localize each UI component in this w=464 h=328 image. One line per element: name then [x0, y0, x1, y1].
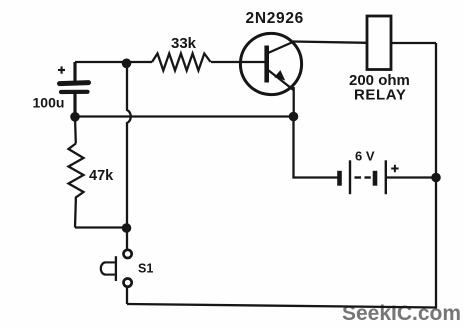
wire: 47k bottom to S1 junction — [75, 226, 127, 228]
battery BT1 6V — [340, 160, 399, 194]
capacitor C1 100u — [58, 62, 89, 117]
switch S1 pushbutton — [101, 250, 132, 287]
node: junction dot emitter / mid wire — [289, 112, 299, 122]
node: junction dot cap bottom / 47k top — [70, 112, 80, 122]
wire: junction B to 33k left lead — [127, 61, 152, 63]
wire: switch bottom contact down — [126, 288, 128, 304]
svg-text:47k: 47k — [89, 168, 114, 184]
svg-text:RELAY: RELAY — [354, 87, 406, 104]
wire: emitter junction down and right to battery minus — [294, 117, 338, 178]
wire: collector to relay — [293, 42, 367, 43]
resistor R1 33k zigzag — [152, 54, 211, 71]
wire: emitter down to junction — [293, 87, 295, 117]
svg-text:100u: 100u — [33, 95, 65, 111]
svg-text:SeekIC.com: SeekIC.com — [342, 302, 461, 325]
wire: junction to switch top contact — [126, 228, 128, 250]
svg-text:S1: S1 — [138, 262, 153, 276]
wire: battery plus to right rail — [387, 176, 436, 178]
node: junction dot B (top) — [122, 59, 132, 69]
wire: relay right to rail — [391, 42, 436, 44]
svg-text:6 V: 6 V — [355, 149, 375, 164]
wire: right rail vertical — [435, 43, 437, 308]
svg-text:2N2926: 2N2926 — [246, 10, 305, 27]
wire: cap top to junction B — [75, 61, 127, 63]
node: junction dot above S1 — [122, 223, 132, 233]
svg-text:33k: 33k — [171, 35, 197, 52]
wire: bottom rail — [127, 304, 437, 308]
wire: vertical from B down with hop over mid wire — [127, 62, 131, 228]
relay K1 coil box — [367, 16, 391, 70]
wire: mid horizontal (cap bottom to emitter junction) — [75, 115, 294, 117]
wire: 33k right lead to transistor base — [211, 61, 265, 63]
transistor Q1 2N2926 — [240, 33, 301, 94]
resistor R2 47k zigzag (vertical) — [69, 117, 84, 228]
node: junction dot battery / right rail — [431, 173, 441, 183]
